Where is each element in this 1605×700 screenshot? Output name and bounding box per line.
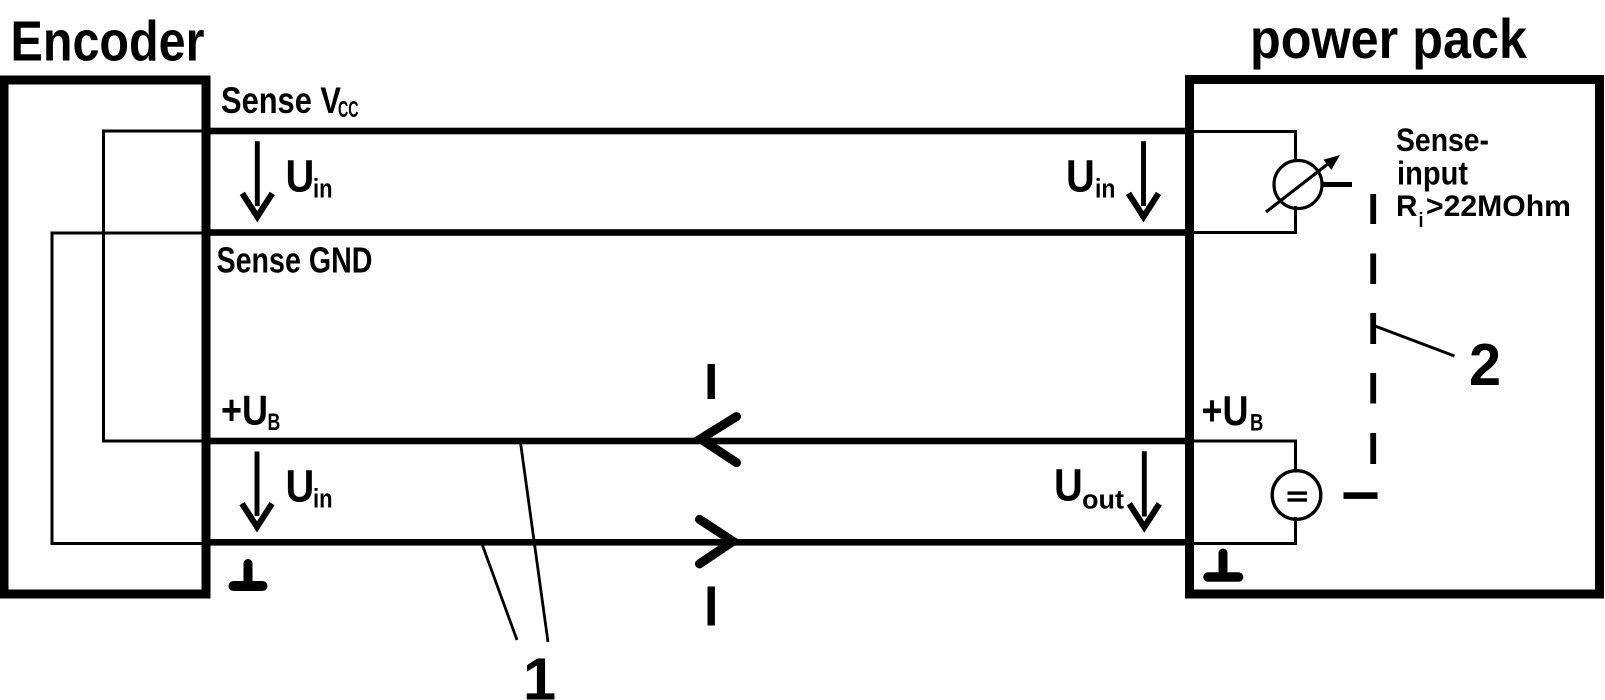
svg-text:in: in [1095,174,1115,204]
svg-text:1: 1 [523,646,556,700]
arrowhead left on +UB wire [701,417,737,463]
wire power-pack sense loop [1194,130,1297,234]
encoder box [0,76,211,599]
svg-text:in: in [313,484,333,514]
svg-text:Sense V: Sense V [221,80,341,121]
svg-text:U: U [1054,460,1083,511]
svg-text:+U: +U [1202,387,1249,434]
arrow Uout right [1129,451,1159,527]
power pack box [1185,75,1604,599]
arrowhead right on 0V wire [700,519,734,564]
wire Sense VCC [211,128,1186,135]
wire +UB [211,438,1186,445]
svg-text:2: 2 [1469,331,1501,398]
wire 0V [211,539,1186,546]
svg-text:U: U [286,150,315,201]
wire power-pack source loop [1194,440,1297,546]
arrow Uin right-top [1129,141,1159,216]
dashed sense link [1344,194,1378,499]
svg-text:>22MOhm: >22MOhm [1426,190,1571,223]
DC source G1 [1272,471,1321,520]
cable marker dash top [708,364,715,399]
svg-text:U: U [286,460,315,511]
arrow Uin left-top [242,141,272,216]
svg-text:Sense-: Sense- [1396,122,1489,158]
svg-text:R: R [1396,190,1418,223]
svg-text:Encoder: Encoder [11,10,205,74]
leader lines to 1 [521,443,549,643]
svg-text:in: in [313,174,333,204]
wire encoder sense-gnd tap [51,232,207,546]
svg-text:input: input [1397,155,1468,192]
svg-text:+U: +U [221,386,268,433]
leader line to 2 [1375,326,1455,356]
arrow Uin left-bottom [242,452,272,527]
svg-text:out: out [1082,485,1124,515]
svg-text:i: i [1419,210,1424,232]
svg-text:power pack: power pack [1250,7,1528,70]
svg-text:B: B [1250,410,1263,437]
ground encoder [234,564,263,587]
wire encoder sense-vcc tap [102,130,206,443]
wire Sense GND [211,229,1186,236]
svg-text:CC: CC [338,96,359,122]
ground power pack [1208,553,1239,577]
meter M1 (sense input) [1266,155,1352,212]
svg-text:Sense GND: Sense GND [217,240,373,281]
svg-text:U: U [1066,150,1095,201]
svg-text:B: B [268,409,281,436]
cable marker dash bottom [708,587,715,626]
